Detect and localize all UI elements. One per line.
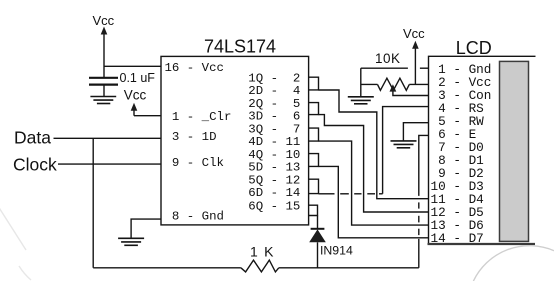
wire 1Q/2D node to LCD pin 11 D4	[319, 90, 429, 199]
connector tab 2Q to 3D	[309, 103, 319, 115]
wire capacitor to ground	[103, 85, 105, 97]
svg-text:Vcc: Vcc	[403, 26, 425, 41]
wire Clock input to pin 9	[58, 163, 161, 165]
IC U1 74LS174 body	[161, 56, 309, 225]
wire ground to LCD pin 1 Gnd (gap at Vcc crossing)	[361, 67, 408, 69]
ground (RW)	[391, 141, 417, 148]
wire ground to LCD pin 5 RW	[403, 123, 428, 141]
wire pot left to ground	[360, 68, 362, 97]
power Vcc supply arrow (above pot)	[412, 41, 419, 85]
dashed wire 5Q/6D node toward RS	[319, 193, 383, 195]
wire bottom E node	[93, 267, 241, 269]
power Vcc supply arrow (top-left)	[101, 27, 108, 79]
wire Data input to pin 3	[54, 137, 162, 139]
svg-text:Vcc: Vcc	[93, 13, 115, 28]
svg-text:Vcc: Vcc	[124, 88, 147, 103]
svg-text:8 - Gnd: 8 - Gnd	[165, 210, 225, 224]
potentiometer R2 10K	[361, 78, 429, 95]
svg-text:3 - 1D: 3 - 1D	[165, 130, 217, 144]
decorative faint curve	[0, 206, 554, 281]
wire 4Q/5D node to LCD pin 14 D7	[319, 166, 429, 237]
wire 3Q/4D node to LCD pin 13 D6	[319, 141, 429, 225]
capacitor C1 0.1uF	[89, 78, 118, 85]
svg-text:Clock: Clock	[13, 155, 57, 175]
wire Vcc to pin 16	[104, 65, 161, 67]
svg-text:LCD: LCD	[456, 38, 492, 58]
connector stub 6Q pin 15	[309, 205, 318, 215]
svg-text:0.1 uF: 0.1 uF	[120, 71, 156, 85]
wire pin 8 Gnd	[131, 219, 161, 238]
svg-text:Data: Data	[14, 128, 51, 148]
svg-text:1 K: 1 K	[250, 244, 275, 260]
LCD screen bar	[500, 61, 529, 241]
svg-text:1 - _Clr: 1 - _Clr	[165, 110, 232, 124]
wire E node up to LCD pin 6 E (with crossover gaps)	[419, 135, 429, 267]
wire 2Q/3D node to LCD pin 12 D5	[319, 115, 429, 212]
svg-text:9 - Clk: 9 - Clk	[165, 156, 225, 170]
svg-text:14 - D7: 14 - D7	[431, 231, 484, 246]
LCD module box (no right edge)	[428, 56, 536, 244]
svg-text:6D - 14: 6D - 14	[248, 186, 300, 200]
connector tab 3Q to 4D	[309, 128, 319, 141]
connector tab 4Q to 5D	[309, 154, 319, 167]
svg-text:10K: 10K	[375, 51, 401, 66]
resistor R1 1K	[241, 260, 279, 272]
ground (below chip pin 8)	[118, 238, 144, 245]
power Vcc supply arrow (above pin 1)	[131, 103, 138, 116]
connector tab 5Q to 6D	[309, 179, 319, 193]
wire Data branch down to 1K resistor	[92, 138, 94, 267]
wire Vcc to pin 1 _Clr	[134, 115, 161, 117]
svg-text:6Q - 15: 6Q - 15	[248, 200, 300, 214]
svg-text:16 - Vcc: 16 - Vcc	[165, 61, 225, 75]
diode D1 IN914	[309, 216, 326, 268]
svg-text:IN914: IN914	[320, 244, 353, 258]
svg-text:74LS174: 74LS174	[204, 37, 276, 57]
wiper arrow	[390, 84, 397, 91]
ground (below capacitor)	[90, 97, 116, 104]
wire resistor to diode to E vertical	[279, 267, 419, 269]
wire up to LCD pin 4 RS	[383, 107, 429, 194]
connector tab 1Q to 2D	[309, 77, 319, 90]
ground (pot left / LCD gnd)	[348, 97, 374, 104]
